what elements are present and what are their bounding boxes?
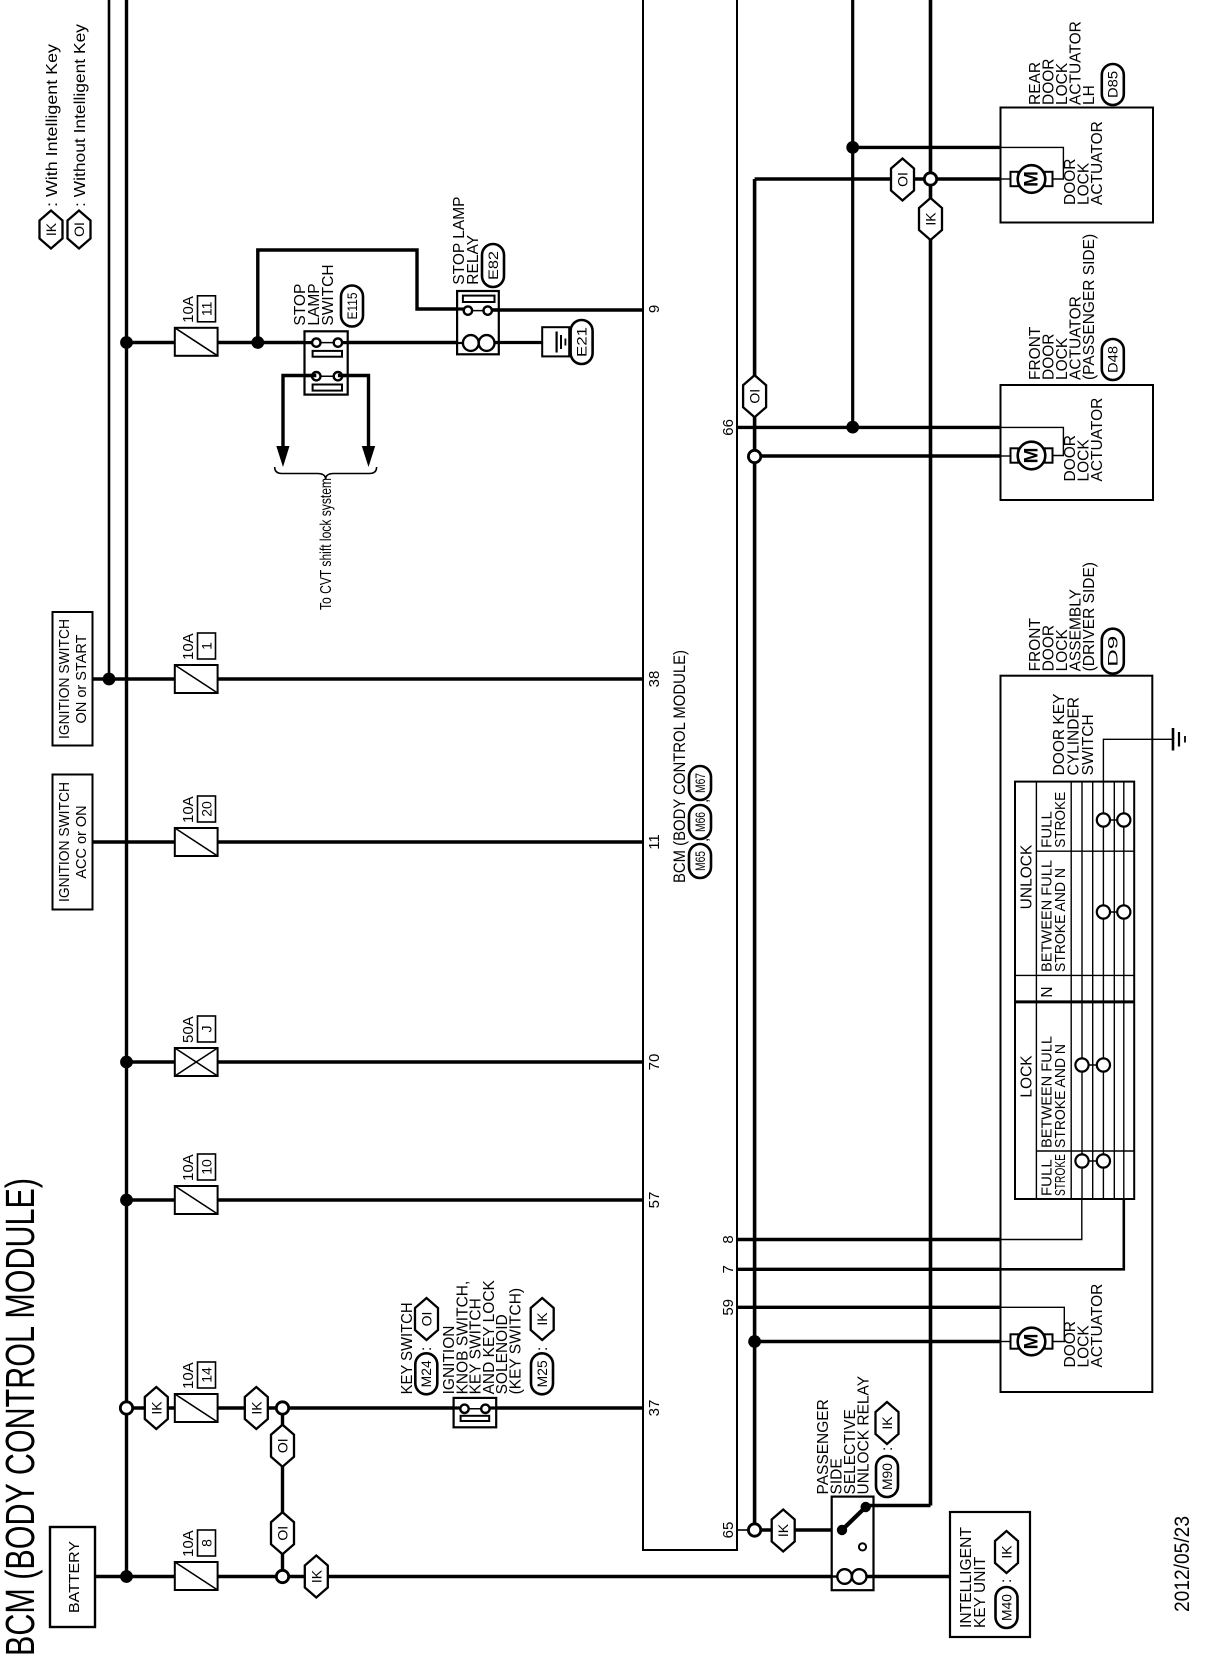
wire CVT upper (283, 376, 316, 449)
table col line x809 (1036, 850, 1134, 852)
svg-text:11: 11 (646, 834, 663, 850)
svg-text:BCM (BODY CONTROL MODULE): BCM (BODY CONTROL MODULE) (0, 1178, 43, 1656)
rear door lock actuator D85 box (1001, 108, 1154, 223)
wire pin65 stub (737, 1529, 749, 1531)
wire D85 bottom jog (853, 146, 1001, 149)
svg-text:IGNITION SWITCH: IGNITION SWITCH (57, 619, 73, 739)
IK hexagon below fuse14 (245, 1387, 268, 1429)
svg-text::: : (418, 1347, 435, 1351)
wire ignition bus y109 (108, 0, 111, 679)
junction dot battery-bus (120, 1570, 133, 1583)
wire fuselinkJ branch x598 (127, 1060, 644, 1063)
svg-text:M24: M24 (419, 1360, 434, 1388)
table col line x658 thick (1015, 1000, 1134, 1003)
svg-text:J: J (199, 1026, 215, 1033)
legend IK hexagon (40, 211, 63, 249)
splice open circle x1203 (748, 450, 760, 462)
svg-text:M: M (1022, 171, 1043, 187)
wire y754 lock line (753, 179, 757, 1530)
svg-text:M: M (1022, 1334, 1043, 1350)
wire fuse10 branch x460 (127, 1198, 644, 1201)
IK hexagon after M40 (995, 1531, 1018, 1573)
svg-text:STROKE AND N: STROKE AND N (1052, 1044, 1069, 1148)
svg-text:OI: OI (419, 1312, 435, 1327)
splice open circle x84 y282 (276, 1570, 288, 1582)
wire fuse11 branch x1318 (127, 341, 305, 344)
svg-text:10: 10 (199, 1159, 215, 1175)
wire battery bus y126 (125, 0, 128, 1577)
relay M90 arm (842, 1507, 866, 1530)
svg-text:KEY UNIT: KEY UNIT (972, 1556, 989, 1628)
wire pin66 (737, 426, 1001, 429)
svg-text:70: 70 (646, 1054, 663, 1071)
connector M65 oval (689, 844, 711, 878)
svg-text:10A: 10A (180, 296, 197, 323)
wire relay contact feed (258, 250, 461, 343)
svg-text:E115: E115 (345, 293, 360, 320)
svg-text:8: 8 (199, 1539, 215, 1547)
wire fuse14 branch x252 (127, 1406, 644, 1409)
svg-text:: Without Intelligent Key: : Without Intelligent Key (72, 24, 89, 207)
svg-text:E21: E21 (574, 327, 589, 357)
IK hexagon on pin65 drop (772, 1510, 795, 1552)
junction dot x1233 y853 (846, 421, 859, 434)
svg-text:M25: M25 (535, 1360, 550, 1387)
svg-text:38: 38 (646, 671, 663, 688)
svg-text:(KEY SWITCH): (KEY SWITCH) (508, 1288, 525, 1395)
svg-text:ACTUATOR: ACTUATOR (1089, 121, 1106, 205)
connector E115 oval (341, 286, 363, 327)
wire pin65 drop (755, 1528, 842, 1531)
OI hexagon on D85 feed (891, 159, 914, 201)
svg-text:7: 7 (720, 1265, 737, 1273)
wire OI crosslink y282 (281, 1408, 284, 1577)
svg-text:IK: IK (923, 212, 939, 226)
D85 door lock actuator motor (1011, 172, 1019, 186)
wire fuse8 branch x84 (127, 1575, 838, 1578)
IK hexagon on x84 (305, 1556, 328, 1598)
svg-text:10A: 10A (180, 1362, 197, 1389)
svg-text:11: 11 (199, 301, 215, 316)
svg-text::: : (998, 1579, 1015, 1583)
wire pin8 (737, 1238, 1001, 1241)
svg-text:D9: D9 (1106, 636, 1121, 667)
wire pin9 (492, 308, 643, 311)
svg-text:14: 14 (199, 1367, 215, 1383)
connector M24 oval (415, 1353, 437, 1394)
battery B1 (50, 1527, 95, 1627)
intelligent key unit box (950, 1512, 1030, 1637)
wire CVT lower (338, 376, 369, 449)
wire D48 motor feed (755, 454, 1001, 457)
fuse 10A 11 (175, 328, 218, 356)
fuse 10A 20 (175, 828, 218, 856)
arrow CVT upper (276, 446, 289, 467)
svg-text:To CVT shift lock system: To CVT shift lock system (318, 478, 335, 610)
junction dot x460 bus (120, 1194, 133, 1207)
OI hexagon on y754 (743, 375, 766, 417)
svg-text:D85: D85 (1106, 71, 1121, 98)
svg-text:M67: M67 (693, 773, 708, 793)
BCM box (643, 0, 737, 1550)
brace CVT (275, 467, 377, 480)
front door lock actuator D48 box (1001, 385, 1154, 500)
svg-text:66: 66 (720, 419, 737, 436)
relay M90 coil (832, 1575, 839, 1577)
wire table to ground (1103, 739, 1173, 781)
table contacts unlock between (1103, 911, 1123, 913)
IK hexagon above fuse14 (145, 1387, 168, 1429)
IK hexagon on y930 (919, 198, 942, 240)
connector M40 oval (996, 1587, 1018, 1628)
svg-text:IK: IK (148, 1401, 164, 1415)
wire pin7 (737, 1268, 1001, 1271)
fusible link 50A J (175, 1048, 218, 1076)
ignition switch ACC or ON box (53, 775, 93, 910)
D9 door lock actuator motor (1011, 1334, 1019, 1348)
svg-text:IK: IK (308, 1569, 324, 1583)
svg-text:N: N (1039, 986, 1056, 997)
svg-text:ACTUATOR: ACTUATOR (1089, 398, 1106, 482)
svg-text:9: 9 (646, 305, 663, 313)
svg-text:(PASSENGER SIDE): (PASSENGER SIDE) (1081, 234, 1098, 380)
connector D85 oval (1102, 64, 1124, 105)
svg-text:OI: OI (71, 222, 87, 237)
table row5 wire (1123, 782, 1125, 1199)
relay E82 contacts (457, 307, 464, 310)
svg-text:ON or START: ON or START (74, 634, 90, 723)
svg-text:ACC or ON: ACC or ON (74, 805, 90, 878)
junction dot x598 bus (120, 1056, 133, 1069)
svg-text:20: 20 (199, 801, 215, 817)
wire battery drop (95, 1575, 127, 1578)
svg-text:65: 65 (720, 1522, 737, 1539)
connector D9 oval (1102, 629, 1124, 674)
fuse 10A 10 (175, 1186, 218, 1214)
stop lamp switch E115 (305, 331, 348, 394)
svg-text:2012/05/23: 2012/05/23 (1171, 1516, 1194, 1612)
ground E21 box (542, 327, 569, 356)
svg-text:10A: 10A (180, 1530, 197, 1557)
svg-text:LH: LH (1081, 85, 1098, 105)
wire fuse20 branch x818 (93, 840, 644, 843)
svg-text:SWITCH: SWITCH (1080, 714, 1097, 775)
splice open circle x252 y282 (276, 1402, 288, 1414)
table row3 wire (1081, 782, 1083, 1199)
connector E21 oval (571, 320, 593, 364)
connector M25 oval (531, 1353, 553, 1394)
svg-text:D48: D48 (1106, 346, 1121, 373)
connector D48 oval (1102, 339, 1124, 380)
svg-text:: With Intelligent Key: : With Intelligent Key (44, 44, 61, 207)
connector M66 oval (689, 805, 711, 839)
table contacts unlock full (1103, 819, 1123, 821)
front door lock assembly D9 box (1001, 676, 1153, 1392)
svg-text:STROKE: STROKE (1052, 1154, 1069, 1196)
svg-text:KEY SWITCH: KEY SWITCH (399, 1302, 416, 1394)
svg-text:STROKE AND N: STROKE AND N (1052, 868, 1069, 972)
table col line x685 (1015, 974, 1134, 976)
junction dot x1318 y258 (251, 336, 264, 349)
table contacts lock between (1082, 1064, 1103, 1066)
svg-text:M40: M40 (999, 1594, 1014, 1621)
door key cylinder switch table frame (1015, 782, 1134, 1199)
svg-text:IK: IK (999, 1545, 1015, 1559)
svg-text:1: 1 (199, 642, 215, 650)
junction dot x1318 bus (120, 336, 133, 349)
svg-text:M66: M66 (693, 812, 708, 832)
connector M90 oval (876, 1456, 898, 1497)
svg-text:IK: IK (879, 1416, 895, 1430)
relay E82 coil (463, 335, 479, 351)
svg-text:8: 8 (720, 1235, 737, 1243)
table row4 wire (1102, 782, 1104, 1199)
junction dot x1513 y853 (846, 141, 859, 154)
wire switch to coil (348, 341, 463, 344)
wire coil to IKU (866, 1575, 950, 1578)
svg-text:IK: IK (43, 222, 59, 236)
svg-text:M90: M90 (880, 1463, 895, 1490)
svg-text:BATTERY: BATTERY (66, 1541, 83, 1613)
svg-text::: : (879, 1447, 896, 1451)
svg-text:10A: 10A (180, 633, 197, 660)
ground symbol D9 (1172, 728, 1175, 751)
table row line y1036 (1035, 782, 1037, 1199)
OI hexagon after M24 (415, 1298, 438, 1340)
fuse 10A 8 (175, 1562, 218, 1590)
connector E82 oval (482, 244, 504, 287)
key switch symbol (454, 1398, 497, 1427)
svg-text:(DRIVER SIDE): (DRIVER SIDE) (1081, 562, 1098, 671)
svg-text:10A: 10A (180, 796, 197, 823)
svg-text:IK: IK (534, 1312, 550, 1326)
svg-text:IK: IK (248, 1401, 264, 1415)
svg-text:BCM (BODY CONTROL MODULE): BCM (BODY CONTROL MODULE) (671, 650, 689, 883)
svg-text:59: 59 (720, 1299, 737, 1316)
table row line y1071 (1070, 782, 1072, 1199)
junction dot x981 y109 (103, 673, 116, 686)
table row line y1114 (1113, 782, 1115, 1199)
wire fuse1 branch x981 (93, 677, 644, 680)
svg-text:57: 57 (646, 1192, 663, 1209)
svg-text:OI: OI (275, 1438, 291, 1453)
stop lamp relay E82 box (457, 291, 499, 354)
table contacts lock full (1082, 1160, 1103, 1162)
IK hexagon after M90 (876, 1402, 899, 1444)
wire relay arm riser (866, 1504, 931, 1507)
svg-text:OI: OI (747, 389, 763, 404)
IK hexagon after M25 (531, 1298, 554, 1340)
svg-text:UNLOCK: UNLOCK (1019, 844, 1036, 909)
splice open circle x1481 y930 (924, 173, 936, 185)
svg-text:50A: 50A (180, 1016, 197, 1043)
svg-text:OI: OI (895, 172, 911, 187)
svg-text:E82: E82 (486, 251, 501, 280)
svg-text:UNLOCK RELAY: UNLOCK RELAY (856, 1376, 873, 1495)
svg-text:LOCK: LOCK (1019, 1055, 1036, 1098)
svg-text:37: 37 (646, 1400, 663, 1417)
OI hexagon on crosslink right (271, 1425, 294, 1467)
svg-text:OI: OI (275, 1526, 291, 1541)
wire y853 line (851, 0, 854, 427)
junction dot x318 y754 (748, 1335, 761, 1348)
table row line y1093 (1092, 782, 1094, 1199)
table col line x509 (1036, 1150, 1134, 1152)
svg-text:M65: M65 (693, 851, 708, 871)
svg-text:SWITCH: SWITCH (320, 264, 337, 325)
svg-text::: : (534, 1347, 551, 1351)
svg-text:STROKE: STROKE (1052, 792, 1069, 848)
connector M67 oval (689, 766, 711, 800)
wire y930 unlock line (929, 0, 933, 1506)
svg-text:RELAY: RELAY (465, 235, 482, 285)
splice open circle pin65 (748, 1524, 760, 1536)
legend OI hexagon (68, 211, 91, 249)
svg-text:ACTUATOR: ACTUATOR (1089, 1284, 1106, 1368)
D48 door lock actuator motor (1011, 448, 1019, 462)
svg-text:10A: 10A (180, 1154, 197, 1181)
ignition switch ON or START box (53, 612, 93, 746)
wire D9 motor feed (755, 1340, 1001, 1343)
splice open circle x252 bus (120, 1402, 132, 1414)
wire D85 motor feed (755, 177, 1001, 180)
arrow CVT lower (362, 446, 375, 467)
fuse 10A 14 (175, 1394, 218, 1422)
OI hexagon on crosslink left (271, 1512, 294, 1554)
relay M90 box (832, 1497, 874, 1591)
svg-text:IK: IK (775, 1523, 791, 1537)
wire pin59 (737, 1306, 1001, 1309)
svg-text:IGNITION SWITCH: IGNITION SWITCH (57, 782, 73, 902)
svg-text:M: M (1022, 448, 1043, 464)
fuse 10A 1 (175, 665, 218, 693)
